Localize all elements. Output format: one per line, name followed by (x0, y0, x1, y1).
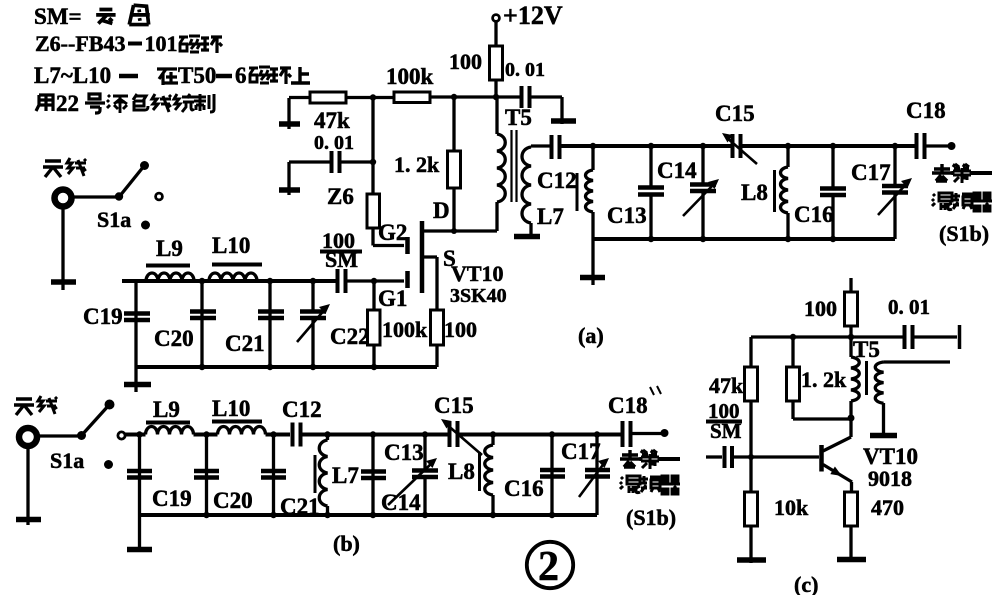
svg-text:C20: C20 (213, 488, 253, 513)
gate G2 bar of VT10 (a) (405, 237, 410, 254)
transformer T5 secondary (c) (875, 362, 883, 403)
capacitor C16 (b) (550, 435, 553, 516)
junction dot (648, 143, 654, 149)
svg-text:100: 100 (449, 49, 482, 74)
svg-text:L7~L10: L7~L10 (34, 63, 111, 88)
wire 100/SM to G1 (a) (347, 279, 404, 282)
tank bottom rail (a) (593, 237, 895, 241)
ground 0.01 gate cap (a) (287, 162, 290, 195)
ground T5 secondary (a) (514, 234, 540, 240)
capacitor C19 (b) (138, 435, 141, 516)
capacitor C17 variable (b) (595, 435, 598, 516)
junction dot (199, 278, 205, 284)
svg-text:2: 2 (538, 544, 559, 590)
svg-text:(b): (b) (333, 531, 360, 556)
ground 470 (c) (837, 557, 866, 563)
svg-text:+12V: +12V (503, 1, 563, 30)
svg-text:G1: G1 (378, 286, 407, 311)
transistor VT10 collector (c) (823, 419, 851, 451)
svg-text:100: 100 (444, 317, 477, 342)
wire +12V down (a) (494, 22, 497, 47)
label 混频器 (a) (932, 193, 952, 210)
wire antenna down (b) (26, 446, 29, 525)
svg-text:Z6--FB43: Z6--FB43 (35, 31, 125, 56)
svg-text:L9: L9 (153, 397, 180, 422)
svg-text:C15: C15 (715, 101, 755, 126)
svg-text:L8: L8 (741, 180, 768, 205)
+12V terminal (a) (493, 15, 500, 22)
capacitor C21 (b) (272, 435, 275, 516)
svg-text:0. 01: 0. 01 (888, 295, 930, 319)
svg-text:100k: 100k (382, 317, 428, 342)
svg-text:10k: 10k (774, 495, 809, 520)
svg-text:C18: C18 (608, 393, 648, 418)
svg-text:C17: C17 (851, 160, 891, 185)
svg-text:C20: C20 (154, 326, 194, 351)
svg-text:1. 2k: 1. 2k (801, 367, 847, 392)
channel bar of VT10 (a) (420, 221, 425, 293)
svg-text:100: 100 (804, 296, 837, 321)
junction dot (270, 512, 276, 518)
junction dot (267, 364, 273, 370)
svg-text:G2: G2 (378, 220, 407, 245)
resistor 100 (c) (845, 292, 858, 326)
capacitor C15 series variable (a) (731, 134, 735, 158)
svg-text:9018: 9018 (868, 466, 912, 491)
wire 47k to 100k (a) (346, 96, 394, 99)
svg-text:1. 2k: 1. 2k (394, 152, 440, 177)
transistor VT10 base bar (c) (819, 445, 824, 472)
inductor L10 (a) (209, 273, 257, 281)
capacitor C18 series (a) (915, 133, 919, 159)
junction dot (451, 94, 457, 100)
gate G1 bar of VT10 (a) (405, 271, 410, 288)
svg-text:101: 101 (145, 31, 178, 56)
svg-text:100k: 100k (386, 64, 434, 89)
ground input LC (a) (134, 367, 137, 392)
junction dot (105, 400, 115, 410)
capacitor C20 (b) (205, 435, 208, 516)
junction dot (748, 454, 754, 460)
junction dot (267, 278, 273, 284)
junction dot (371, 364, 377, 370)
svg-text:0. 01: 0. 01 (314, 132, 354, 154)
wire 0.01 to ground (a) (531, 97, 562, 124)
junction dot (140, 161, 149, 170)
resistor 10k (c) (745, 492, 758, 526)
svg-text:T5: T5 (505, 105, 532, 130)
wire 100k to +12V node (a) (430, 95, 520, 98)
capacitor C15 series variable (b) (448, 421, 452, 447)
svg-text:0. 01: 0. 01 (505, 59, 545, 81)
ground under antenna (b) (16, 517, 41, 523)
resistor 1.2k (c) (791, 337, 794, 367)
top rail (c) (751, 335, 904, 338)
svg-text:C14: C14 (381, 490, 421, 515)
capacitor 0.01 output (c) (903, 325, 907, 349)
capacitor C16 (a) (831, 146, 834, 188)
svg-text:S1a: S1a (97, 207, 131, 232)
tick marks above C18 (b) (650, 386, 661, 395)
figure number 2 (527, 542, 573, 590)
resistor 1.2k (a) (452, 97, 455, 151)
svg-text:22: 22 (56, 91, 79, 116)
svg-text:L7: L7 (537, 204, 564, 229)
junction dot (549, 431, 555, 437)
junction dot (490, 431, 496, 437)
junction dot (115, 192, 123, 200)
antenna label 天线 (a) (43, 161, 63, 177)
svg-text:L9: L9 (156, 236, 183, 261)
inductor L7 (b) (326, 435, 329, 441)
svg-text:(c): (c) (794, 572, 818, 595)
label 混频器 (b) (620, 476, 640, 493)
ground T5 secondary (c) (870, 433, 897, 439)
junction dot (549, 512, 555, 518)
svg-text:L10: L10 (212, 396, 250, 421)
svg-text:C21: C21 (225, 331, 265, 356)
junction dot (785, 143, 791, 149)
svg-text:S1a: S1a (50, 448, 84, 473)
wire antenna down (a) (61, 206, 64, 290)
switch S1a contact open dot (b) (118, 432, 125, 439)
output end bar (c) (958, 325, 962, 349)
junction dot (948, 142, 956, 150)
svg-text:C13: C13 (384, 440, 424, 465)
ground under antenna (a) (51, 279, 76, 285)
transformer T5 primary (a) (495, 97, 498, 134)
switch S1a contact open dot (a) (156, 193, 163, 200)
junction dot (370, 159, 376, 165)
circled figure number 2 (527, 542, 573, 588)
junction dot (370, 94, 376, 100)
junction dot (203, 431, 209, 437)
junction dot (371, 278, 377, 284)
svg-text:C12: C12 (282, 397, 322, 422)
rail C15 to C18 (b) (458, 433, 622, 437)
svg-text:C16: C16 (794, 202, 834, 227)
capacitor C18 series (b) (621, 421, 625, 447)
capacitor 100/SM series (a) (336, 269, 340, 293)
junction dot (661, 429, 669, 437)
svg-text:6: 6 (235, 63, 247, 88)
transformer T5 primary (c) (849, 337, 852, 357)
core bar L8 (b) (478, 452, 481, 491)
svg-text:L8: L8 (448, 459, 475, 484)
label 去第一 (b) (620, 450, 640, 467)
junction dot (324, 431, 330, 437)
junction dot (324, 512, 330, 518)
svg-text:L10: L10 (212, 233, 250, 258)
antenna label 天线 (b) (14, 399, 34, 415)
capacitor C13 (a) (649, 146, 652, 187)
source lead S and resistor 100 (a) (424, 257, 437, 310)
junction dot (493, 94, 499, 100)
junction dot (892, 143, 898, 149)
junction dot (490, 512, 496, 518)
junction dot (203, 512, 209, 518)
junction dot (370, 431, 376, 437)
switch S1a arm (a) (119, 166, 144, 197)
svg-text:VT10: VT10 (451, 261, 504, 286)
label 去第一 (a) (932, 164, 952, 181)
svg-text:C18: C18 (906, 98, 946, 123)
capacitor C12 series (b) (291, 423, 295, 447)
inductor L9 (b) (146, 427, 194, 435)
junction dot (270, 431, 276, 437)
junction dot (848, 334, 854, 340)
bottom rail (b) (140, 513, 598, 517)
ground bottom rail (b) (138, 515, 141, 549)
tank top rail left (a) (561, 144, 733, 148)
svg-text:T50: T50 (178, 63, 216, 88)
junction dot (700, 236, 706, 242)
svg-text:C17: C17 (561, 439, 601, 464)
capacitor C14 variable (a) (701, 146, 704, 184)
svg-text:(a): (a) (578, 323, 604, 348)
core bar L7 (b) (314, 455, 317, 493)
transformer T5 core (c) (865, 361, 868, 395)
svg-text:SM=: SM= (34, 4, 82, 29)
junction dot (310, 278, 316, 284)
transformer T5 secondary L7 winding (a) (522, 147, 531, 223)
svg-text:(S1b): (S1b) (939, 221, 989, 246)
junction dot (77, 431, 86, 440)
inductor L10 (b) (218, 427, 266, 435)
capacitor C21 (a) (268, 281, 271, 367)
junction dot (422, 431, 428, 437)
wire antenna to switch (b) (38, 434, 80, 437)
capacitor C17 variable (a) (893, 146, 896, 186)
antenna terminal (b) (19, 428, 37, 446)
junction dot (310, 364, 316, 370)
junction dot (830, 236, 836, 242)
core bar L7 tank (a) (576, 173, 579, 211)
capacitor 0.01 decoupling (a) (520, 86, 524, 108)
capacitor C14 variable (b) (423, 435, 426, 471)
capacitor C12 series (a) (550, 135, 554, 159)
wire antenna to switch (a) (71, 195, 118, 198)
switch S1a arm (b) (81, 405, 109, 436)
capacitor C19 (a) (134, 281, 137, 367)
ground top bias 47k (a) (287, 98, 290, 129)
ferrite bead Z6 (a) (371, 98, 374, 195)
junction dot (648, 236, 654, 242)
junction dot (451, 228, 457, 234)
svg-text:L7: L7 (332, 463, 359, 488)
resistor 470 (c) (845, 492, 858, 526)
junction dot (136, 431, 142, 437)
svg-text:C13: C13 (607, 203, 647, 228)
switch S1a contact dot (a) (141, 221, 150, 230)
bottom rail input LC (a) (136, 365, 437, 369)
supply stub (c) (849, 278, 852, 292)
resistor 100k top (a) (394, 92, 430, 103)
svg-text:C19: C19 (83, 304, 123, 329)
input capacitor 100/SM (c) (706, 455, 722, 458)
svg-text:470: 470 (871, 495, 904, 520)
drain wire D (a) (424, 229, 497, 232)
ground 0.01 (a) (551, 118, 576, 124)
svg-text:C22: C22 (330, 324, 370, 349)
inductor L7 tank (a) (591, 146, 594, 170)
ground tank (a) (591, 239, 594, 285)
resistor 100 supply (a) (490, 46, 503, 80)
svg-text:SM: SM (710, 419, 742, 443)
svg-text:SM: SM (325, 247, 358, 272)
inductor L8 (b) (491, 435, 494, 446)
junction dot (594, 431, 600, 437)
core bar L8 (a) (773, 170, 776, 212)
svg-text:47k: 47k (709, 373, 744, 398)
svg-text:C16: C16 (504, 476, 544, 501)
svg-text:C19: C19 (152, 486, 192, 511)
transistor VT10 emitter with arrow (c) (823, 465, 852, 483)
svg-text:47k: 47k (314, 108, 350, 133)
svg-text:D: D (433, 198, 450, 223)
switch S1a contact dot (b) (104, 460, 113, 469)
tank top rail right (a) (741, 144, 915, 148)
junction dot (370, 512, 376, 518)
wire 47k left lead (a) (289, 96, 310, 99)
capacitor 0.01 gate (a) (289, 160, 330, 163)
svg-text:C15: C15 (434, 393, 474, 418)
capacitor C22 variable (a) (311, 281, 314, 311)
inductor L8 (a) (786, 146, 789, 167)
capacitor C20 (a) (200, 281, 203, 367)
ground 10k (c) (737, 557, 766, 563)
main rail (b) (125, 433, 146, 437)
junction dot (422, 512, 428, 518)
antenna terminal (a) (55, 190, 72, 207)
resistor 47k (a) (310, 92, 346, 103)
resistor 100k gate (a) (372, 281, 375, 310)
svg-text:C12: C12 (537, 168, 577, 193)
note line 4: 用22号漆包线绕制 (36, 95, 53, 111)
capacitor C13 (b) (371, 435, 374, 516)
resistor 47k (c) (749, 337, 752, 367)
svg-text:C14: C14 (657, 158, 697, 183)
svg-text:(S1b): (S1b) (626, 505, 676, 530)
junction dot (199, 364, 205, 370)
svg-text:Z6: Z6 (327, 184, 354, 209)
input rail (a) (122, 279, 336, 283)
svg-text:3SK40: 3SK40 (450, 285, 507, 307)
junction dot (830, 143, 836, 149)
junction dot (790, 334, 796, 340)
inductor L9 (a) (146, 273, 194, 281)
rail C12 to C15 (b) (302, 433, 449, 437)
junction dot (700, 143, 706, 149)
junction dot (785, 236, 791, 242)
junction dot (848, 415, 855, 422)
junction dot (590, 143, 596, 149)
transformer T5 core (a) (510, 130, 512, 202)
wire Z6 to G2 (a) (373, 228, 404, 246)
